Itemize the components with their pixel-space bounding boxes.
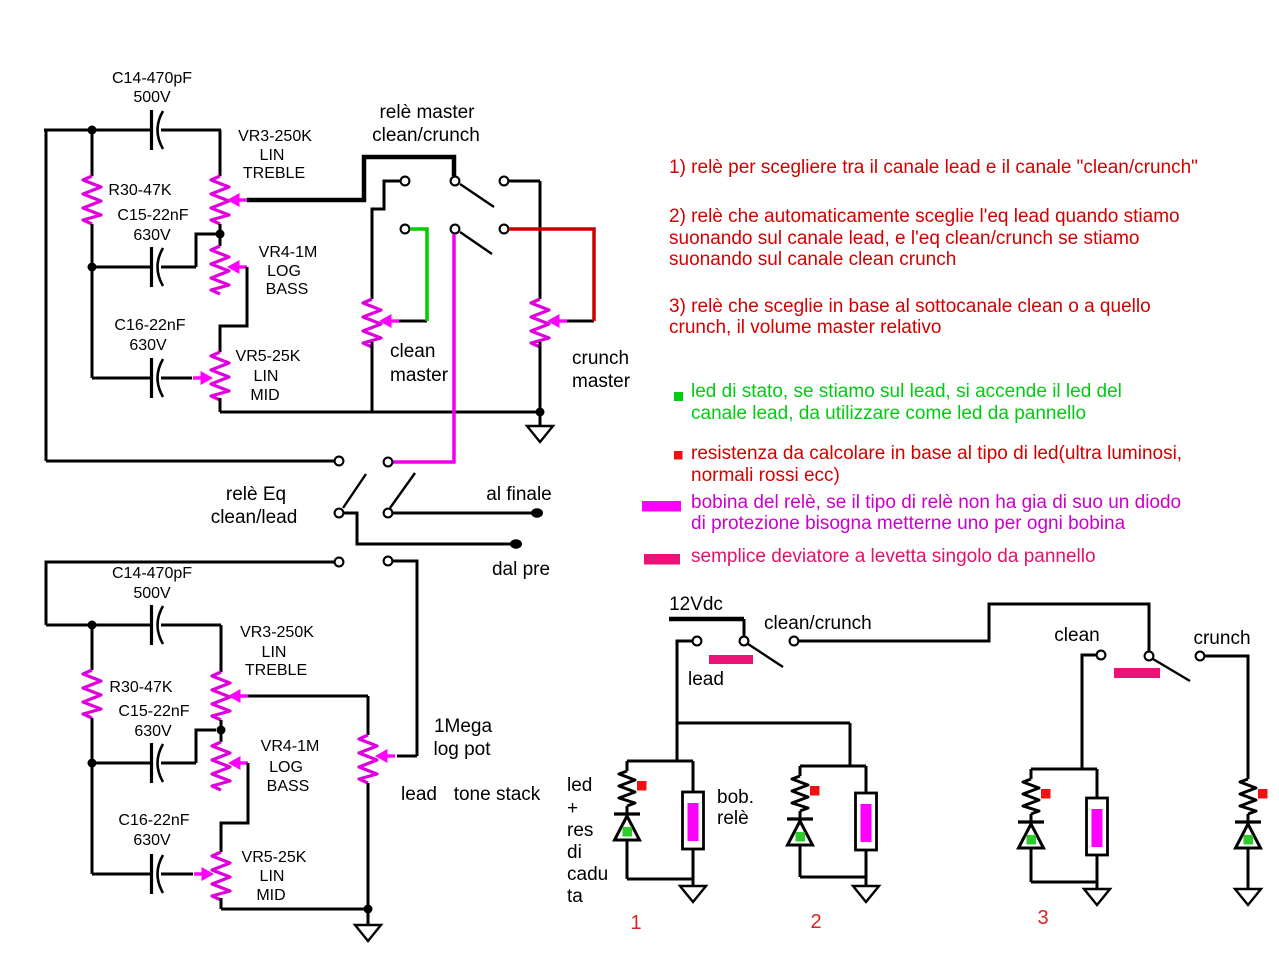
svg-text:3) relè che sceglie in base al: 3) relè che sceglie in base al sottocana… xyxy=(669,296,1151,317)
svg-text:clean: clean xyxy=(390,341,435,362)
svg-text:bobina del relè, se il tipo di: bobina del relè, se il tipo di relè non … xyxy=(691,492,1181,513)
svg-text:2: 2 xyxy=(810,911,821,933)
svg-text:C14-470pF: C14-470pF xyxy=(112,565,192,582)
svg-text:LIN: LIN xyxy=(260,147,285,164)
svg-text:bob.: bob. xyxy=(717,787,754,808)
svg-text:log pot: log pot xyxy=(433,739,491,760)
svg-text:VR3-250K: VR3-250K xyxy=(238,128,312,145)
svg-text:C15-22nF: C15-22nF xyxy=(118,703,189,720)
svg-text:lead: lead xyxy=(401,784,437,805)
svg-text:crunch, il volume master relat: crunch, il volume master relativo xyxy=(669,317,941,338)
svg-text:LOG: LOG xyxy=(269,759,303,776)
svg-text:led di stato, se stiamo sul le: led di stato, se stiamo sul lead, si acc… xyxy=(691,381,1122,402)
svg-text:12Vdc: 12Vdc xyxy=(669,594,723,615)
svg-text:1Mega: 1Mega xyxy=(434,716,493,737)
svg-text:cadu: cadu xyxy=(567,864,608,885)
svg-text:LIN: LIN xyxy=(262,644,287,661)
svg-text:clean: clean xyxy=(1054,625,1099,646)
svg-text:crunch: crunch xyxy=(572,348,629,369)
svg-text:BASS: BASS xyxy=(266,281,309,298)
svg-text:3: 3 xyxy=(1037,907,1048,929)
svg-text:BASS: BASS xyxy=(267,778,310,795)
svg-text:630V: 630V xyxy=(129,337,167,354)
svg-text:500V: 500V xyxy=(133,585,171,602)
svg-text:630V: 630V xyxy=(133,227,171,244)
svg-text:LIN: LIN xyxy=(260,868,285,885)
svg-text:clean/crunch: clean/crunch xyxy=(764,613,872,634)
svg-text:master: master xyxy=(572,371,631,392)
svg-text:R30-47K: R30-47K xyxy=(108,182,171,199)
svg-text:canale lead, da utilizzare com: canale lead, da utilizzare come led da p… xyxy=(691,403,1086,424)
svg-text:clean/crunch: clean/crunch xyxy=(372,125,480,146)
svg-text:al finale: al finale xyxy=(486,484,552,505)
svg-text:500V: 500V xyxy=(133,89,171,106)
svg-text:MID: MID xyxy=(250,387,279,404)
svg-text:VR4-1M: VR4-1M xyxy=(261,738,320,755)
svg-text:dal pre: dal pre xyxy=(492,559,550,580)
svg-text:+: + xyxy=(567,798,578,819)
svg-text:semplice deviatore a levetta s: semplice deviatore a levetta singolo da … xyxy=(691,546,1096,567)
svg-text:C14-470pF: C14-470pF xyxy=(112,70,192,87)
svg-text:C15-22nF: C15-22nF xyxy=(117,207,188,224)
svg-text:VR3-250K: VR3-250K xyxy=(240,624,314,641)
svg-text:VR5-25K: VR5-25K xyxy=(236,348,301,365)
svg-text:TREBLE: TREBLE xyxy=(243,165,305,182)
svg-text:ta: ta xyxy=(567,886,583,907)
svg-text:VR4-1M: VR4-1M xyxy=(259,244,318,261)
svg-text:normali rossi ecc): normali rossi ecc) xyxy=(691,465,840,486)
svg-text:2) relè che automaticamente sc: 2) relè che automaticamente sceglie l'eq… xyxy=(669,206,1180,227)
svg-text:suonando sul canale clean crun: suonando sul canale clean crunch xyxy=(669,249,956,270)
svg-text:res: res xyxy=(567,820,593,841)
svg-text:VR5-25K: VR5-25K xyxy=(242,849,307,866)
svg-text:630V: 630V xyxy=(133,832,171,849)
svg-text:TREBLE: TREBLE xyxy=(245,662,307,679)
svg-text:1: 1 xyxy=(630,912,641,934)
svg-text:crunch: crunch xyxy=(1193,628,1250,649)
svg-text:di protezione bisogna metterne: di protezione bisogna metterne uno per o… xyxy=(691,513,1126,534)
svg-text:suonando sul canale lead, e l': suonando sul canale lead, e l'eq clean/c… xyxy=(669,228,1139,249)
svg-text:LIN: LIN xyxy=(254,368,279,385)
svg-text:C16-22nF: C16-22nF xyxy=(114,317,185,334)
svg-text:led: led xyxy=(567,775,592,796)
svg-text:LOG: LOG xyxy=(267,263,301,280)
svg-text:relè master: relè master xyxy=(379,102,475,123)
svg-text:clean/lead: clean/lead xyxy=(211,507,298,528)
svg-text:MID: MID xyxy=(256,887,285,904)
svg-text:R30-47K: R30-47K xyxy=(109,679,172,696)
svg-text:relè Eq: relè Eq xyxy=(226,484,286,505)
svg-text:di: di xyxy=(567,842,582,863)
svg-text:relè: relè xyxy=(717,808,749,829)
svg-text:630V: 630V xyxy=(134,723,172,740)
svg-text:lead: lead xyxy=(688,669,724,690)
svg-text:tone stack: tone stack xyxy=(454,784,541,805)
svg-text:resistenza da calcolare in bas: resistenza da calcolare in base al tipo … xyxy=(691,443,1182,464)
svg-text:C16-22nF: C16-22nF xyxy=(118,812,189,829)
svg-text:1) relè per scegliere tra il c: 1) relè per scegliere tra il canale lead… xyxy=(669,157,1198,178)
svg-text:master: master xyxy=(390,365,449,386)
